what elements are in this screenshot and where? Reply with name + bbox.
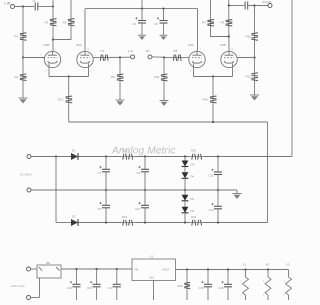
wire B+ rail: [85, 8, 198, 10]
ground: [116, 99, 125, 101]
triode V1A: [76, 43, 93, 76]
svg-text:BR: BR: [46, 261, 50, 265]
svg-text:R5: R5: [63, 20, 67, 24]
svg-text:R22: R22: [191, 215, 197, 219]
svg-text:VOUT: VOUT: [162, 267, 170, 271]
junction: [105, 155, 107, 157]
wire right edge: [291, 0, 293, 157]
svg-text:C12: C12: [209, 208, 215, 212]
capacitor C6: [244, 2, 246, 10]
junction: [228, 35, 230, 37]
terminal L-IN: [11, 5, 15, 9]
wire: [79, 156, 122, 158]
wire: [22, 7, 24, 32]
triode V1B: [44, 43, 61, 76]
capacitor C10: [144, 190, 146, 205]
resistor R11: [163, 73, 165, 82]
diode D1: [71, 153, 78, 160]
junction: [144, 155, 146, 157]
svg-text:C8: C8: [137, 171, 141, 175]
capacitor C7: [105, 157, 107, 170]
junction: [75, 268, 77, 270]
svg-text:L-O: L-O: [128, 49, 134, 53]
wire: [110, 56, 131, 58]
junction: [22, 5, 24, 7]
junction: [22, 56, 24, 58]
terminal AC1: [27, 155, 31, 159]
capacitor C9: [105, 190, 107, 205]
wire: [93, 57, 99, 59]
wire: [212, 104, 214, 122]
capacitor C13: [76, 269, 78, 284]
wire: [135, 222, 191, 224]
resistor R15: [212, 95, 214, 104]
resistor R19: [121, 222, 135, 224]
wire: [248, 5, 268, 7]
capacitor C19: [227, 270, 229, 285]
wire: [228, 27, 230, 51]
wire: [135, 156, 191, 158]
svg-text:R15: R15: [203, 98, 209, 102]
wire: [70, 0, 72, 18]
resistor R6: [228, 19, 230, 28]
junction: [144, 221, 146, 223]
capacitor C3: [141, 9, 143, 21]
wire: [254, 42, 256, 58]
svg-text:C15: C15: [87, 286, 93, 290]
terminal R-I: [148, 55, 152, 59]
resistor R12: [254, 72, 256, 83]
junction: [105, 221, 107, 223]
wire: [152, 56, 164, 58]
svg-text:D6: D6: [191, 209, 195, 213]
wire plate V1A: [84, 9, 86, 52]
svg-text:L-IN: L-IN: [4, 2, 11, 6]
wire: [163, 58, 165, 74]
wire: [204, 156, 293, 158]
wire cathodes: [194, 76, 233, 78]
junction: [163, 56, 165, 58]
resistor R25: [186, 282, 188, 290]
wire: [56, 222, 71, 224]
svg-text:ADJ: ADJ: [149, 276, 155, 280]
junction: [212, 121, 214, 123]
ground: [160, 100, 169, 102]
svg-text:C13: C13: [67, 286, 73, 290]
svg-text:C18: C18: [199, 286, 205, 290]
svg-text:R10: R10: [246, 34, 252, 38]
junction: [141, 7, 143, 9]
wire cathodes: [49, 76, 89, 78]
wire: [55, 157, 57, 223]
wire: [254, 6, 256, 32]
wire AC mid: [31, 189, 237, 191]
svg-text:D2: D2: [72, 215, 76, 219]
resistor R5: [70, 18, 72, 28]
terminal AC4: [27, 296, 31, 300]
bridge BR: [37, 265, 61, 278]
wire: [228, 0, 230, 19]
terminal AC3: [27, 267, 31, 271]
svg-text:U1: U1: [150, 255, 154, 259]
wire: [31, 297, 40, 299]
wire: [183, 57, 190, 59]
capacitor C4: [163, 9, 165, 21]
ground: [250, 94, 259, 96]
regulator U1: [132, 259, 176, 281]
svg-text:V2B: V2B: [220, 43, 226, 47]
capacitor C18: [207, 270, 209, 285]
wire: [119, 58, 121, 74]
svg-text:R12: R12: [246, 75, 252, 79]
ground: [233, 193, 242, 195]
svg-text:R21: R21: [191, 149, 197, 153]
svg-text:C10: C10: [135, 207, 141, 211]
svg-text:C3: C3: [133, 22, 137, 26]
wire: [176, 269, 289, 271]
junction: [105, 189, 107, 191]
svg-text:R7: R7: [101, 49, 105, 53]
resistor R20: [121, 156, 135, 158]
resistor R8: [172, 57, 183, 59]
svg-text:C17: C17: [108, 286, 114, 290]
diode D3: [184, 157, 186, 161]
wire plate V2A: [197, 9, 199, 52]
resistor R22: [190, 222, 204, 224]
svg-text:V3: V3: [286, 262, 290, 266]
diode D6: [184, 201, 186, 207]
terminal R-OUT: [268, 4, 272, 8]
svg-text:C19: C19: [219, 286, 225, 290]
svg-text:R-OUT: R-OUT: [263, 0, 272, 4]
wire: [204, 222, 268, 224]
wire: [186, 290, 188, 301]
svg-text:R3: R3: [45, 20, 49, 24]
wire: [79, 222, 122, 224]
wire: [141, 0, 143, 9]
wire: [164, 57, 172, 59]
svg-text:C4: C4: [154, 22, 158, 26]
terminal L-O: [131, 55, 135, 59]
junction: [186, 268, 188, 270]
resistor R13: [68, 95, 70, 104]
svg-text:R13: R13: [58, 98, 64, 102]
capacitor C12: [217, 190, 219, 206]
svg-text:R1: R1: [15, 34, 19, 38]
wire: [22, 82, 24, 99]
capacitor C15: [96, 269, 98, 284]
svg-text:R19: R19: [122, 215, 128, 219]
wire: [119, 82, 121, 100]
junction: [119, 56, 121, 58]
svg-text:AC6.3-12V: AC6.3-12V: [11, 284, 25, 288]
wire: [229, 5, 244, 7]
svg-text:AC 200V: AC 200V: [20, 173, 33, 177]
wire: [31, 156, 71, 158]
wire: [52, 27, 54, 51]
wire: [267, 122, 269, 223]
terminal AC2: [27, 188, 31, 192]
diode D5: [184, 190, 186, 195]
junction: [68, 75, 70, 77]
resistor R9: [119, 73, 121, 82]
resistor R7: [99, 57, 110, 59]
resistor R10: [254, 32, 256, 42]
wire heater rail: [61, 268, 132, 270]
svg-text:V2A: V2A: [188, 43, 194, 47]
svg-text:VIN: VIN: [134, 267, 138, 271]
wire: [38, 6, 53, 8]
wire: [153, 281, 155, 301]
wire: [68, 104, 70, 122]
wire: [254, 82, 256, 95]
wire grid V2B: [237, 57, 254, 59]
junction: [52, 5, 54, 7]
wire: [31, 268, 38, 270]
svg-text:D4: D4: [191, 174, 195, 178]
wire: [236, 190, 238, 194]
wire: [53, 27, 71, 40]
wire: [186, 270, 188, 282]
junction: [55, 155, 57, 157]
capacitor C8: [144, 157, 146, 170]
resistor R1: [22, 32, 24, 42]
svg-text:R11: R11: [155, 75, 160, 79]
wire: [15, 6, 35, 8]
svg-text:R4: R4: [202, 20, 206, 24]
svg-text:D1: D1: [72, 149, 76, 153]
diode D2: [71, 219, 78, 226]
capacitor C1: [34, 3, 36, 11]
svg-text:C9: C9: [98, 207, 102, 211]
junction: [207, 268, 209, 270]
junction: [228, 4, 230, 6]
resistor R3: [52, 18, 54, 28]
wire: [254, 58, 256, 72]
junction: [217, 221, 219, 223]
triode V2A: [188, 43, 205, 76]
svg-text:D5: D5: [191, 197, 195, 201]
capacitor C11: [217, 157, 219, 173]
wire bus: [69, 121, 268, 123]
svg-text:R25: R25: [178, 284, 184, 288]
wire: [22, 42, 24, 58]
wire: [22, 58, 24, 74]
junction: [212, 75, 214, 77]
svg-text:V2: V2: [266, 262, 270, 266]
resistor R2: [22, 73, 24, 82]
wire: [211, 27, 229, 37]
svg-text:D3: D3: [191, 163, 195, 167]
junction: [253, 4, 255, 6]
junction: [162, 7, 164, 9]
ground: [138, 34, 146, 36]
svg-text:V1A: V1A: [76, 43, 82, 47]
wire: [163, 82, 165, 101]
junction: [52, 38, 54, 40]
svg-text:R8: R8: [174, 49, 178, 53]
svg-text:Analog Metric: Analog Metric: [111, 146, 176, 157]
wire grid V1B: [23, 57, 45, 59]
capacitor C17: [116, 269, 118, 284]
svg-text:R6: R6: [221, 20, 225, 24]
triode V2B: [220, 43, 237, 76]
ground: [19, 97, 28, 99]
junction: [217, 155, 219, 157]
ground: [160, 34, 168, 36]
svg-text:R-I: R-I: [146, 49, 150, 53]
resistor R21: [190, 156, 204, 158]
svg-text:C7: C7: [98, 171, 102, 175]
svg-text:C11: C11: [209, 174, 214, 178]
diode D4: [184, 167, 186, 173]
resistor R4: [210, 19, 212, 28]
svg-text:R2: R2: [15, 75, 19, 79]
wire: [68, 77, 70, 96]
svg-text:V1: V1: [243, 262, 247, 266]
svg-text:V1B: V1B: [44, 43, 50, 47]
wire: [210, 0, 212, 19]
wire: [212, 77, 214, 96]
wire: [52, 0, 54, 18]
junction: [253, 56, 255, 58]
svg-text:R9: R9: [111, 75, 115, 79]
